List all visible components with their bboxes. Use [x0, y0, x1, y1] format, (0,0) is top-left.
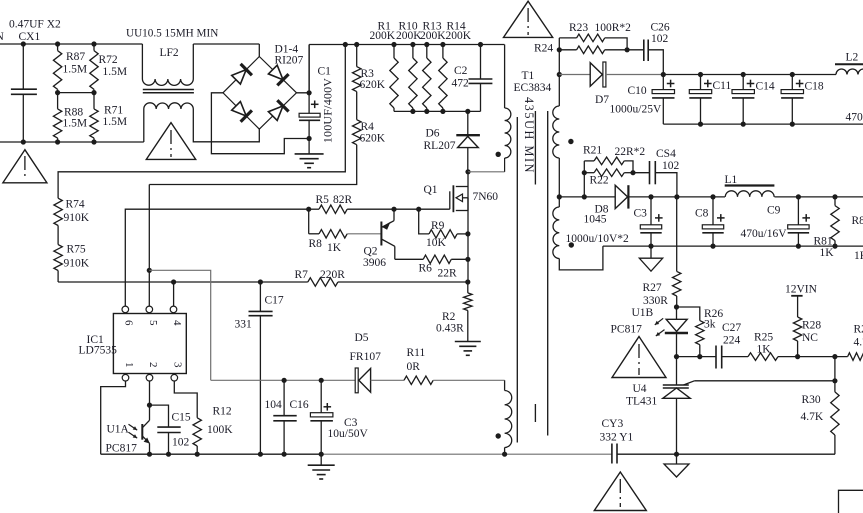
resistor R29 (edge) — [848, 353, 863, 361]
svg-text:620K: 620K — [360, 133, 386, 145]
svg-text:R72: R72 — [99, 54, 118, 66]
svg-text:82R: 82R — [333, 194, 353, 206]
capacitor C3 10u/50V — [320, 380, 322, 412]
svg-text:1000u/10V*2: 1000u/10V*2 — [566, 233, 630, 245]
svg-text:R5: R5 — [316, 194, 330, 206]
svg-text:1: 1 — [123, 362, 135, 368]
chassis isolation triangle (CY3) — [594, 472, 646, 511]
resistor R71 — [93, 93, 95, 109]
svg-text:RI207: RI207 — [275, 55, 304, 67]
node primary polarity dot — [496, 152, 501, 157]
svg-text:T1: T1 — [522, 70, 535, 82]
svg-text:100R*2: 100R*2 — [595, 22, 632, 34]
diode D8 1045 — [615, 185, 627, 208]
svg-text:10K: 10K — [426, 237, 447, 249]
wire IC pin6 to R5 node — [125, 209, 308, 306]
resistor R8 1K — [308, 209, 310, 234]
resistor R4 620K — [356, 92, 358, 120]
resistor R88 — [57, 93, 59, 109]
wire R8 to Q2 base — [347, 233, 381, 235]
ground triangle (output2) — [650, 246, 652, 258]
svg-text:C8: C8 — [695, 208, 709, 220]
bridge rectifier D1-4 RI207 diamond — [223, 57, 297, 130]
svg-text:NC: NC — [802, 332, 818, 344]
optocoupler U1B PC817 LED — [676, 307, 678, 319]
svg-text:RL207: RL207 — [424, 140, 456, 152]
resistor R27 330R — [676, 197, 678, 272]
inductor LF2 core — [143, 89, 194, 91]
svg-text:C14: C14 — [756, 81, 775, 93]
wire pin5 branch to VCC node — [149, 270, 210, 380]
svg-text:D7: D7 — [595, 94, 609, 106]
wire snubber bottom rail — [394, 110, 481, 112]
svg-text:R82: R82 — [852, 215, 863, 227]
wire AC top rail — [0, 43, 142, 45]
pin 2 — [146, 374, 153, 381]
svg-text:0.47UF X2: 0.47UF X2 — [9, 19, 61, 31]
svg-text:R25: R25 — [754, 332, 773, 344]
capacitor C26 102 — [627, 49, 644, 51]
svg-text:C17: C17 — [265, 295, 284, 307]
ground (C3 vcc) — [308, 464, 335, 466]
svg-text:UU10.5 15MH MIN: UU10.5 15MH MIN — [126, 28, 218, 40]
capacitor C10 1000u/25V — [662, 75, 664, 90]
svg-text:TL431: TL431 — [626, 396, 658, 408]
svg-text:R74: R74 — [66, 199, 85, 211]
wire secondary lower return — [559, 246, 603, 270]
svg-text:CY3: CY3 — [602, 418, 624, 430]
svg-text:332 Y1: 332 Y1 — [600, 432, 634, 444]
resistor R26 3k — [677, 307, 700, 321]
svg-text:102: 102 — [662, 160, 680, 172]
svg-text:100K: 100K — [207, 424, 233, 436]
inductor L2 — [835, 63, 863, 65]
ground (bridge/C1) — [308, 139, 310, 154]
wire AC bottom rail — [0, 141, 144, 143]
svg-text:470u/16V: 470u/16V — [741, 228, 788, 240]
svg-text:1.5M: 1.5M — [63, 118, 88, 130]
svg-text:U4: U4 — [633, 383, 647, 395]
svg-text:R71: R71 — [104, 105, 123, 117]
wire secondary ground rail — [617, 453, 835, 455]
resistor R12 100K — [174, 381, 197, 418]
svg-text:R9: R9 — [431, 220, 445, 232]
svg-text:330R: 330R — [643, 295, 668, 307]
chassis isolation triangle (top, R24) — [504, 1, 553, 37]
svg-text:R23: R23 — [569, 22, 588, 34]
svg-text:R30: R30 — [802, 394, 821, 406]
resistor R21 22R*2 — [584, 160, 594, 162]
svg-text:470u: 470u — [846, 112, 863, 124]
svg-text:200K: 200K — [396, 30, 422, 42]
svg-text:C10: C10 — [628, 85, 647, 97]
wire LF2 upper output to bridge top — [193, 43, 259, 45]
svg-text:220R: 220R — [320, 269, 345, 281]
svg-text:R24: R24 — [534, 43, 553, 55]
wire LF2 lower output to bridge bottom — [193, 117, 259, 142]
op-amp IC1 LD7535 body — [113, 314, 186, 374]
svg-text:2: 2 — [147, 362, 159, 368]
svg-text:R21: R21 — [583, 145, 602, 157]
pin 1 — [122, 374, 129, 381]
wire VCC node line — [211, 379, 356, 381]
wire pin4 riser — [173, 282, 175, 306]
wire R4 bottom to IC pin5 line — [149, 145, 356, 185]
capacitor C11 — [700, 75, 702, 90]
svg-text:22R: 22R — [438, 268, 458, 280]
wire Q1 source chain — [467, 187, 469, 235]
inductor L1 — [725, 184, 775, 186]
svg-text:R75: R75 — [67, 244, 86, 256]
transformer T1 core — [516, 117, 518, 443]
svg-text:L1: L1 — [725, 174, 738, 186]
svg-text:5: 5 — [147, 320, 159, 326]
resistor R30 4.7K — [834, 357, 836, 392]
wire HV+ rail — [309, 44, 504, 46]
svg-text:L2: L2 — [846, 52, 859, 64]
transformer T1 secondary winding lower — [558, 197, 560, 207]
svg-text:200K: 200K — [420, 30, 446, 42]
resistor R6 22R — [395, 258, 423, 260]
svg-text:3906: 3906 — [363, 257, 386, 269]
node drain junction — [465, 169, 470, 174]
svg-text:R6: R6 — [419, 263, 433, 275]
svg-text:22R*2: 22R*2 — [615, 146, 646, 158]
wire source to R2 — [467, 234, 469, 282]
ground triangle (TL431) — [676, 454, 678, 464]
svg-text:1K: 1K — [757, 344, 772, 356]
capacitor C27 224 — [715, 346, 717, 369]
svg-text:C9: C9 — [767, 205, 781, 217]
svg-text:10u/50V: 10u/50V — [328, 428, 369, 440]
transistor Q1 7N60 MOSFET — [467, 172, 469, 187]
svg-text:1.5M: 1.5M — [103, 66, 128, 78]
resistor R23 100R*2 pair — [559, 37, 576, 39]
svg-text:Q2: Q2 — [364, 246, 378, 258]
svg-text:Q1: Q1 — [424, 184, 438, 196]
resistor R7 220R — [58, 281, 308, 283]
capacitor C18 — [791, 75, 793, 90]
resistor R74 910K — [54, 198, 62, 225]
transformer T1 aux winding — [504, 380, 506, 390]
svg-text:102: 102 — [172, 437, 190, 449]
svg-text:LF2: LF2 — [160, 47, 179, 59]
resistor R5 82R — [306, 207, 311, 212]
svg-text:C2: C2 — [454, 65, 468, 77]
svg-text:102: 102 — [651, 33, 669, 45]
svg-text:C3: C3 — [634, 208, 648, 220]
svg-text:1.5M: 1.5M — [103, 116, 128, 128]
diode D3 (bridge lower-left) — [232, 102, 247, 117]
svg-text:C15: C15 — [172, 412, 191, 424]
regulator U4 TL431 — [676, 357, 678, 385]
resistor R81 1K — [834, 197, 836, 206]
svg-text:4.7K: 4.7K — [801, 411, 824, 423]
svg-text:200K: 200K — [370, 30, 396, 42]
svg-text:104: 104 — [265, 399, 283, 411]
svg-text:1K: 1K — [854, 250, 863, 262]
svg-text:1K: 1K — [820, 247, 835, 259]
diode D5 FR107 — [355, 368, 358, 393]
svg-text:C26: C26 — [651, 22, 670, 34]
svg-text:CS4: CS4 — [656, 148, 676, 160]
svg-text:331: 331 — [235, 319, 253, 331]
resistor R2 0.43R — [467, 282, 469, 293]
svg-text:4.7: 4.7 — [854, 337, 863, 349]
wire bridge negative return to C1- and ground — [211, 93, 309, 154]
capacitor CX1 — [22, 44, 24, 89]
resistor R22 — [584, 172, 594, 174]
svg-text:224: 224 — [723, 335, 741, 347]
svg-text:D5: D5 — [355, 332, 369, 344]
svg-text:12VIN: 12VIN — [785, 284, 818, 296]
wire pin1 to ground rail — [101, 381, 126, 454]
capacitor C1 100UF/400V — [308, 45, 310, 114]
svg-text:435UH MIN: 435UH MIN — [522, 97, 536, 174]
resistor R87 — [57, 44, 59, 51]
node feedback line — [674, 354, 679, 359]
node secondary polarity dot lower — [569, 242, 574, 247]
svg-text:R27: R27 — [643, 282, 662, 294]
svg-text:R22: R22 — [590, 175, 609, 187]
resistor R11 0R — [404, 376, 433, 384]
node secondary polarity dot upper — [568, 139, 573, 144]
svg-text:620K: 620K — [360, 79, 386, 91]
transformer T1 secondary winding upper — [558, 38, 560, 106]
svg-text:C16: C16 — [290, 399, 309, 411]
svg-text:EC3834: EC3834 — [514, 82, 552, 94]
resistor R28 NC — [793, 317, 801, 341]
pin 5 — [146, 306, 153, 313]
svg-text:4: 4 — [171, 320, 183, 326]
wire output2 bottom rail — [603, 245, 863, 247]
resistor R25 1K — [748, 353, 778, 361]
svg-text:LD7535: LD7535 — [79, 345, 118, 357]
svg-text:0.43R: 0.43R — [436, 323, 464, 335]
diode D2 (bridge upper-right) — [268, 65, 283, 80]
svg-text:1000u/25V: 1000u/25V — [610, 104, 662, 116]
pin 6 — [122, 306, 129, 313]
pin 3 — [171, 374, 178, 381]
svg-text:CX1: CX1 — [19, 31, 41, 43]
svg-text:R12: R12 — [213, 406, 232, 418]
svg-text:200K: 200K — [446, 30, 472, 42]
capacitor C16 104 — [283, 380, 285, 415]
wire mid rail R87/R88 junction — [58, 92, 94, 94]
chassis isolation triangle (input side) — [3, 150, 47, 183]
box (bottom-right, partial) — [839, 490, 863, 513]
svg-text:C11: C11 — [713, 80, 732, 92]
capacitor C8 — [712, 197, 714, 225]
svg-text:910K: 910K — [64, 212, 90, 224]
resistor R3 620K — [356, 45, 358, 67]
chassis isolation triangle (optocoupler) — [612, 337, 666, 378]
wire HV rail tap down to R74 chain — [58, 45, 345, 199]
wire primary-side ground rail — [101, 453, 322, 455]
wire output1 bottom rail — [663, 123, 863, 125]
svg-text:R2: R2 — [442, 311, 456, 323]
inductor LF2 lower winding — [143, 109, 145, 142]
svg-text:3: 3 — [172, 362, 184, 368]
ground (R2 source) — [455, 341, 481, 343]
wire pin2 node — [149, 381, 151, 405]
svg-text:FR107: FR107 — [350, 351, 382, 363]
svg-text:1K: 1K — [327, 242, 342, 254]
wire secondary center tap rail — [557, 194, 562, 199]
wire TL431 ref line — [684, 381, 695, 385]
capacitor C14 — [742, 75, 744, 90]
svg-text:C18: C18 — [805, 81, 824, 93]
wire primary bottom to drain — [468, 171, 505, 173]
resistor R9 10K — [419, 209, 429, 234]
optocoupler U1A PC817 transistor — [141, 424, 143, 440]
capacitor CY3 332 Y1 — [611, 444, 613, 464]
svg-text:1.5M: 1.5M — [63, 64, 88, 76]
svg-text:R87: R87 — [66, 51, 85, 63]
svg-text:100UF/400V: 100UF/400V — [321, 78, 335, 143]
resistor R75 910K — [57, 226, 59, 245]
svg-text:R4: R4 — [361, 121, 375, 133]
svg-text:0R: 0R — [407, 361, 421, 373]
capacitor CS4 102 — [633, 172, 650, 174]
svg-text:R8: R8 — [309, 238, 323, 250]
capacitor C17 331 — [259, 282, 261, 311]
svg-text:3k: 3k — [704, 319, 716, 331]
svg-text:1045: 1045 — [584, 214, 607, 226]
diode D7 — [557, 72, 562, 77]
diode D6 RL207 — [467, 111, 469, 135]
svg-text:472: 472 — [452, 78, 470, 90]
svg-text:7N60: 7N60 — [473, 191, 499, 203]
wire bridge positive output riser — [297, 45, 310, 93]
transformer T1 primary winding — [504, 45, 506, 109]
capacitor C3 (output2) — [650, 197, 652, 225]
resistor R72 — [93, 44, 95, 51]
svg-text:R11: R11 — [407, 347, 426, 359]
svg-text:PC817: PC817 — [611, 324, 643, 336]
svg-text:U1B: U1B — [632, 307, 654, 319]
inductor LF2 upper winding — [141, 44, 143, 79]
transistor Q2 3906 — [380, 222, 382, 246]
capacitor C2 472 — [480, 45, 482, 80]
pin 4 — [170, 306, 177, 313]
svg-text:PC817: PC817 — [106, 443, 138, 455]
svg-text:910K: 910K — [64, 258, 90, 270]
wire pin5 riser to R4 — [148, 185, 150, 307]
node aux polarity dot — [496, 433, 501, 438]
diode D4 (bridge lower-right) — [268, 106, 283, 121]
svg-text:R7: R7 — [295, 269, 309, 281]
diode D1 (bridge upper-left) — [232, 70, 247, 85]
svg-text:U1A: U1A — [107, 424, 130, 436]
chassis isolation triangle (under LF2) — [146, 123, 195, 160]
svg-text:D6: D6 — [426, 128, 440, 140]
svg-text:6: 6 — [123, 320, 135, 326]
wire output1 top rail — [663, 74, 836, 76]
capacitor C15 102 — [150, 405, 169, 427]
svg-text:R28: R28 — [802, 320, 821, 332]
capacitor C9 470u/16V — [797, 197, 799, 225]
svg-text:R29: R29 — [854, 324, 863, 336]
svg-text:C1: C1 — [318, 66, 332, 78]
svg-text:C27: C27 — [722, 322, 741, 334]
